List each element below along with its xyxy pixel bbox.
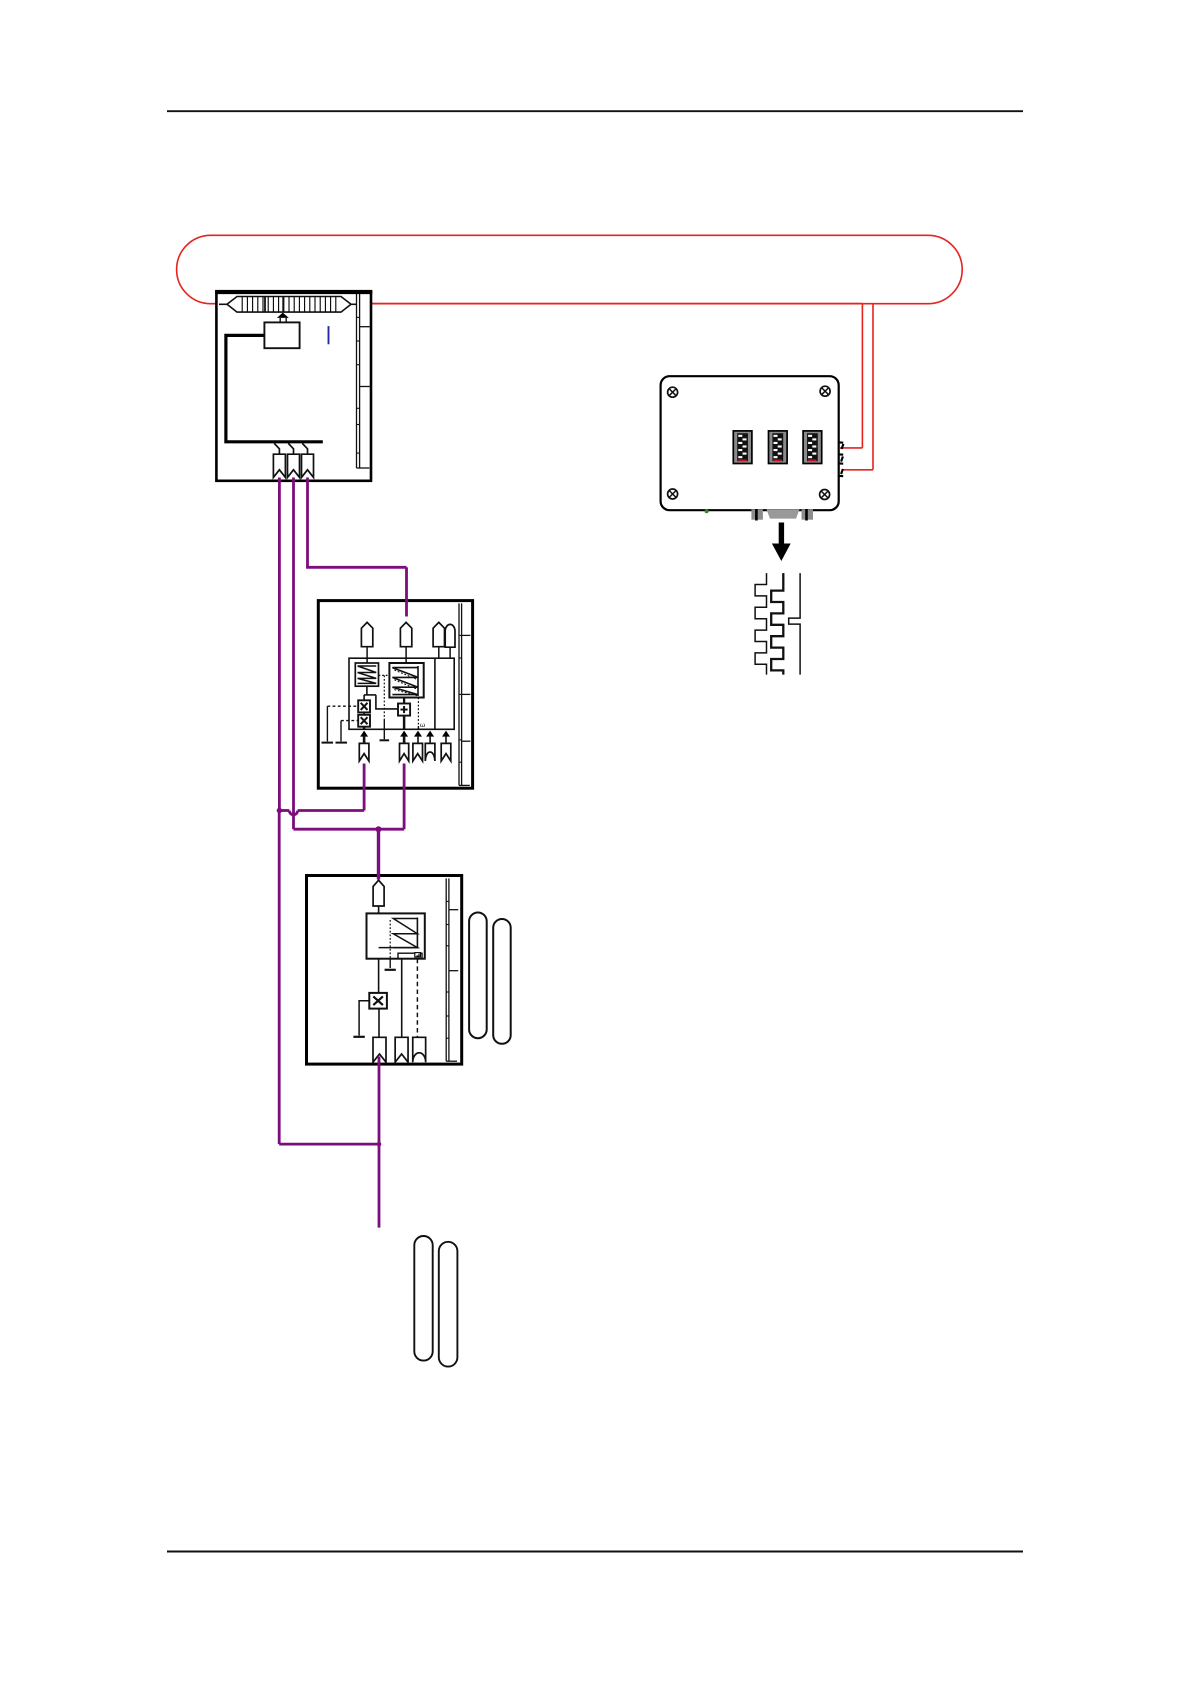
- svg-text:ω: ω: [420, 722, 425, 729]
